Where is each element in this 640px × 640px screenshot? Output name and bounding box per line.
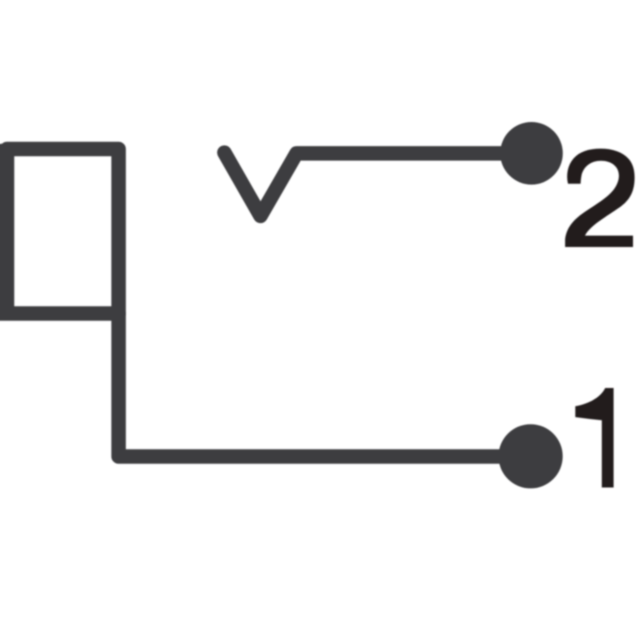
connector body J1 (jack sleeve rectangle) (0, 149, 119, 314)
tip contact spring and wire pin 2 (224, 153, 531, 216)
wire pin 1 (sleeve lead: down and right to terminal) (119, 314, 531, 457)
pin 1 terminal dot (498, 424, 562, 488)
pin 2 terminal dot (500, 122, 563, 185)
pin number 2 (565, 149, 635, 247)
pin number 1 (575, 388, 613, 488)
